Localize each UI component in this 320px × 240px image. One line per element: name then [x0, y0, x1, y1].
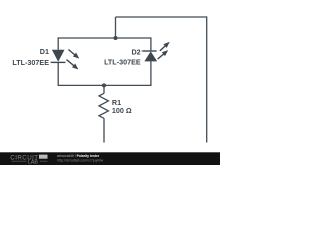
svg-text:http://circuitlab.com/c/7pq49w: http://circuitlab.com/c/7pq49w	[57, 159, 104, 163]
svg-text:D1: D1	[40, 47, 49, 56]
svg-text:100 Ω: 100 Ω	[112, 106, 132, 115]
svg-text:LTL-307EE: LTL-307EE	[12, 58, 49, 67]
wire R1 bottom lead	[103, 118, 105, 142]
svg-text:LTL-307EE: LTL-307EE	[104, 58, 141, 67]
wire D2 top lead	[150, 37, 152, 51]
resistor R1 zigzag	[99, 93, 108, 118]
wire R1 top lead	[103, 85, 105, 93]
svg-text:LAB: LAB	[28, 159, 38, 165]
wire bottom rail	[58, 84, 152, 86]
CircuitLab logo	[10, 154, 47, 165]
wire D1 bottom lead	[57, 63, 59, 86]
LED D1 (cathode down)	[51, 50, 79, 70]
svg-text:D2: D2	[131, 48, 140, 57]
node junction at top rail	[113, 36, 117, 40]
wire stub from top rail down to node	[115, 17, 117, 38]
footer bar	[0, 152, 220, 165]
svg-text:arisncat49 / Polarity tester: arisncat49 / Polarity tester	[57, 154, 100, 158]
wire top rail	[116, 16, 207, 18]
leader dash D1	[51, 61, 53, 63]
leader dash D2	[142, 50, 145, 52]
LED D2 (cathode up)	[143, 42, 170, 62]
wire D2 bottom lead	[150, 61, 152, 85]
wire D1 top lead	[57, 37, 59, 49]
wire right vertical	[206, 16, 208, 142]
node junction at bottom rail	[102, 83, 106, 87]
wire inner top rail	[58, 37, 151, 39]
